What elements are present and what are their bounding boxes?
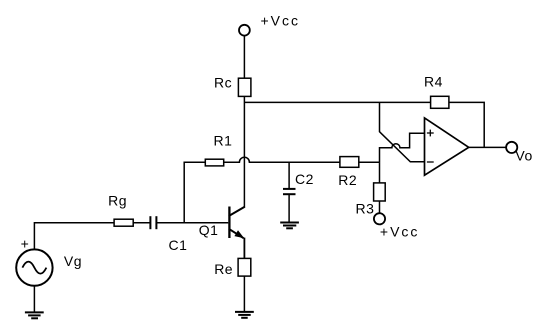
svg-text:Vg: Vg — [64, 253, 82, 269]
svg-text:Q1: Q1 — [199, 222, 219, 238]
terminal Vo — [506, 142, 517, 153]
wire noninverting input path — [380, 133, 425, 162]
ground under Vg — [25, 312, 44, 318]
wire R1 left leg — [184, 162, 205, 223]
op-amp U1 — [425, 118, 469, 175]
terminal +Vcc top — [239, 25, 250, 36]
svg-text:C1: C1 — [169, 237, 188, 253]
wire Vg to Rg — [34, 223, 114, 250]
capacitor C2 — [283, 162, 296, 222]
transistor Q1 — [229, 207, 245, 259]
wire R4 output feedback — [449, 102, 484, 147]
ground under C2 — [280, 223, 299, 229]
source Vg — [16, 249, 52, 285]
wire R1 to R2 with hop over collector — [224, 157, 340, 162]
wire inverting input tap — [380, 102, 425, 161]
wire Vg bottom — [33, 286, 35, 313]
svg-text:R4: R4 — [424, 73, 443, 89]
resistor R2 — [340, 157, 359, 168]
wire collector vertical — [243, 96, 245, 207]
svg-text:Rc: Rc — [214, 75, 232, 91]
wire Vcc stem — [243, 36, 245, 79]
svg-text:C2: C2 — [295, 171, 314, 187]
resistor R3 — [374, 183, 386, 201]
wire Re bottom — [243, 276, 245, 312]
resistor R4 — [431, 96, 449, 108]
resistor Re — [238, 258, 251, 276]
resistor Rc — [238, 78, 251, 96]
svg-text:+Vcc: +Vcc — [380, 224, 420, 240]
capacitor C1 — [150, 216, 156, 229]
wire op-amp output — [469, 146, 506, 148]
wire Rg to C1 — [133, 222, 150, 224]
svg-text:R3: R3 — [356, 200, 375, 216]
terminal +Vcc bottom — [374, 213, 385, 224]
wire R3 bottom — [379, 201, 381, 213]
ground under Re — [235, 312, 254, 318]
wire C1 to base — [156, 222, 228, 224]
svg-text:Vo: Vo — [515, 148, 532, 164]
svg-text:Rg: Rg — [108, 192, 127, 208]
svg-text:+Vcc: +Vcc — [261, 12, 301, 28]
svg-text:R1: R1 — [214, 133, 233, 149]
wire R2 right — [359, 161, 380, 163]
svg-text:+: + — [21, 236, 30, 252]
resistor R1 — [205, 159, 223, 166]
wire junction to R3 — [379, 162, 381, 183]
resistor Rg — [114, 219, 133, 226]
wire top rail — [244, 101, 430, 103]
svg-text:Re: Re — [214, 261, 233, 277]
svg-text:R2: R2 — [338, 172, 357, 188]
